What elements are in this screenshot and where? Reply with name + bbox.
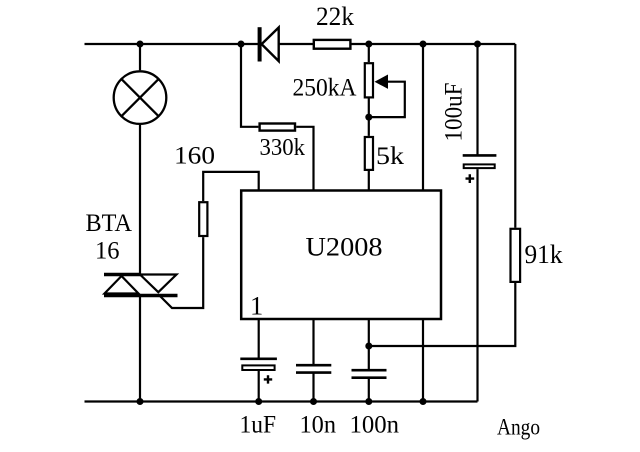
resistor R1 22k: [314, 40, 351, 49]
wire 5k to pin3 top: [368, 171, 370, 191]
svg-text:16: 16: [95, 237, 120, 264]
diode D1: [258, 27, 279, 61]
capacitor C1 1uF: [240, 359, 277, 384]
wire 330k drop: [241, 44, 258, 127]
wire right rail top: [514, 44, 516, 228]
wire 100uF bottom: [476, 169, 478, 401]
svg-text:10n: 10n: [300, 409, 337, 438]
capacitor C2 10n: [296, 365, 331, 372]
wire 10n bottom: [312, 373, 314, 402]
wire 160 top: [203, 172, 259, 201]
wire wiper loop: [369, 82, 405, 117]
capacitor C4 100uF: [463, 155, 497, 183]
resistor R5 160: [199, 202, 207, 236]
svg-text:22k: 22k: [316, 2, 354, 31]
wire 330k to pin2 top: [296, 127, 313, 191]
lamp L1: [114, 71, 167, 124]
svg-text:160: 160: [174, 140, 215, 169]
wire 100n bottom: [368, 378, 370, 402]
wire pin4 top branch: [422, 44, 424, 191]
svg-text:250kA: 250kA: [293, 73, 358, 102]
node 10n junction: [310, 398, 317, 405]
node pin4-top junction: [420, 41, 427, 48]
capacitor C3 100n: [352, 370, 387, 378]
wire top rail: [85, 43, 516, 45]
node lamp-top junction: [137, 41, 144, 48]
wire right rail bottom: [369, 283, 516, 346]
node pin3-91k junction: [365, 343, 372, 350]
wire bottom rail: [85, 400, 478, 402]
svg-text:91k: 91k: [525, 239, 564, 269]
svg-text:U2008: U2008: [306, 232, 383, 261]
wire triac bottom: [139, 296, 141, 402]
resistor R4 91k: [511, 229, 521, 282]
wire 100uF top branch: [476, 44, 478, 155]
wire pot bottom: [368, 99, 370, 136]
node wiper junction: [365, 114, 372, 121]
wire pin2 bottom: [312, 319, 314, 365]
node 22k-pot junction: [365, 41, 372, 48]
wire 1uF bottom: [258, 371, 260, 402]
wire pot top: [368, 44, 370, 62]
wire pin4 bottom: [422, 319, 424, 402]
resistor R3 5k: [365, 137, 373, 170]
IC U1 U2008: [241, 191, 441, 320]
wire pin1 bottom: [258, 319, 260, 358]
svg-text:100n: 100n: [350, 410, 400, 439]
potentiometer P1 250kA: [365, 63, 373, 97]
wire pin3 bottom: [368, 319, 370, 370]
svg-text:Ango: Ango: [497, 415, 540, 440]
resistor R2 330k: [260, 124, 295, 131]
node 1uF junction: [255, 398, 262, 405]
wiper arrow: [375, 75, 389, 89]
svg-text:5k: 5k: [376, 141, 404, 170]
svg-text:1uF: 1uF: [240, 409, 277, 438]
svg-text:1: 1: [250, 290, 263, 320]
node 100uF-top junction: [474, 41, 481, 48]
node diode junction: [238, 41, 245, 48]
triac Q1 BTA16: [104, 275, 178, 296]
node 100n junction: [365, 398, 372, 405]
svg-text:330k: 330k: [260, 135, 306, 161]
wire lamp top: [139, 44, 141, 70]
wire 160 bottom to gate: [160, 237, 203, 308]
svg-text:BTA: BTA: [86, 210, 133, 237]
node pin4 junction: [420, 398, 427, 405]
node triac-bottom junction: [137, 398, 144, 405]
wire lamp to triac: [139, 125, 141, 275]
svg-text:100uF: 100uF: [441, 83, 468, 142]
